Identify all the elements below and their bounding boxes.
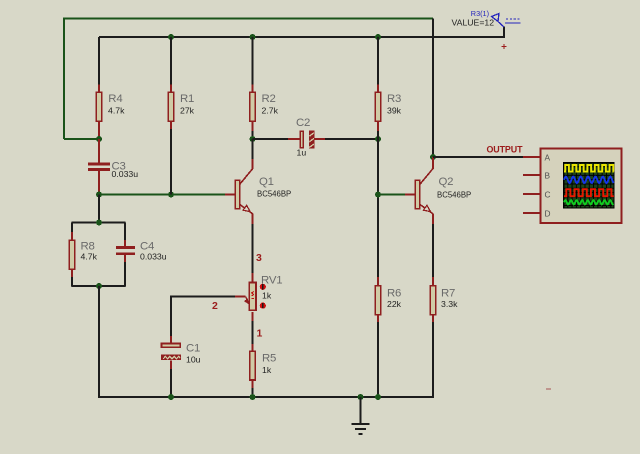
capacitor C4 xyxy=(116,246,135,255)
wire node to C2 xyxy=(253,138,289,140)
svg-text:BC546BP: BC546BP xyxy=(437,191,471,200)
svg-text:R4: R4 xyxy=(108,93,122,105)
label R5 xyxy=(262,353,276,365)
pin scope B xyxy=(523,174,541,176)
wire R8/C4 bottom bar xyxy=(72,285,126,287)
pin scope D xyxy=(523,212,541,214)
svg-text:B: B xyxy=(545,170,551,180)
label R7 xyxy=(441,288,455,300)
wire feedback top horizontal xyxy=(63,18,433,20)
label C1 xyxy=(186,343,200,355)
pin R5 top xyxy=(252,344,254,352)
value 10u xyxy=(186,355,201,365)
net label OUTPUT xyxy=(487,145,524,155)
value 1k xyxy=(262,291,272,301)
pin C2 left xyxy=(288,138,300,140)
stray mark xyxy=(546,388,551,390)
pin R7 bottom xyxy=(432,315,434,322)
node C3 bottom junction xyxy=(96,192,102,198)
label C4 xyxy=(140,241,154,253)
wire wiper vertical to C1 xyxy=(170,296,172,336)
pin R5 bottom xyxy=(252,380,254,388)
oscilloscope body xyxy=(541,148,622,223)
wire C4 branch lower xyxy=(124,262,126,287)
svg-text:R1: R1 xyxy=(180,93,194,105)
node R1 bottom xyxy=(168,192,174,198)
value 27k xyxy=(180,106,195,116)
svg-text:VALUE=12: VALUE=12 xyxy=(452,18,495,28)
label Q2 xyxy=(439,176,454,188)
resistor R2 xyxy=(250,92,256,121)
pin R3 top xyxy=(377,85,379,93)
svg-text:BC546BP: BC546BP xyxy=(257,190,291,199)
wire R5 to rail xyxy=(252,388,254,397)
wire R1 to base net xyxy=(170,129,172,195)
wire RV1 to R5 xyxy=(252,321,254,344)
capacitor C3 xyxy=(88,163,110,171)
wire R8 branch upper xyxy=(71,223,73,233)
pin C4 top xyxy=(124,240,126,247)
wire feedback left vertical xyxy=(63,18,65,139)
pin scope C xyxy=(523,193,541,195)
svg-text:4.7k: 4.7k xyxy=(108,106,125,116)
origin marker + xyxy=(502,44,507,49)
capacitor C1 xyxy=(162,343,181,359)
label R6 xyxy=(387,288,401,300)
node rail/R2 xyxy=(250,34,256,40)
label R2 xyxy=(262,93,276,105)
node R4/C3 junction xyxy=(96,136,102,142)
pin R6 bottom xyxy=(377,315,379,322)
svg-text:1k: 1k xyxy=(262,365,272,375)
pin R8 top xyxy=(71,232,73,240)
wire wiper horizontal xyxy=(171,296,235,298)
wire left column to ground rail xyxy=(98,286,100,398)
node output junction xyxy=(430,154,436,160)
wire R6 to rail xyxy=(377,322,379,397)
svg-text:OUTPUT: OUTPUT xyxy=(487,145,524,155)
pin RV1 wiper with arrow xyxy=(235,297,249,305)
ground xyxy=(352,397,370,434)
svg-text:1u: 1u xyxy=(297,147,307,157)
svg-text:4.7k: 4.7k xyxy=(81,251,98,261)
pin Q1 collector xyxy=(252,159,254,169)
value 0.033u xyxy=(140,251,167,261)
pin C4 bottom xyxy=(124,255,126,262)
pin R4 top xyxy=(98,85,100,93)
pin label C xyxy=(545,189,551,199)
trace channel B blue xyxy=(564,177,614,184)
pin R4 bottom xyxy=(98,121,100,139)
svg-text:R5: R5 xyxy=(262,353,276,365)
pin RV1 bottom xyxy=(252,312,254,321)
node rail/R3 xyxy=(375,34,381,40)
wire ground rail xyxy=(99,396,434,398)
svg-text:C: C xyxy=(545,189,551,199)
pin R7 top xyxy=(432,277,434,286)
resistor R6 xyxy=(375,286,381,315)
value 39k xyxy=(387,106,402,116)
svg-text:39k: 39k xyxy=(387,106,402,116)
node R8/C4 top xyxy=(96,220,102,226)
value BC546BP xyxy=(437,191,471,200)
transistor Q1 xyxy=(235,169,253,214)
pin C1 bottom xyxy=(170,360,172,369)
wire rail to R3 xyxy=(377,37,379,85)
pin C3 bottom xyxy=(98,171,100,195)
scope screen xyxy=(563,162,615,209)
power terminal R3(1) VALUE=12 xyxy=(492,14,522,28)
pin number 2 xyxy=(212,300,218,312)
pin Q1 base xyxy=(225,194,235,196)
RV1 hidden-pin dot lower xyxy=(260,303,266,309)
wire rail to R2 xyxy=(252,37,254,85)
wire Q2 emitter to R7 xyxy=(432,224,434,277)
pin RV1 top xyxy=(252,273,254,282)
wire feedback right vertical xyxy=(432,19,434,158)
label C3 xyxy=(112,160,126,172)
svg-text:3.3k: 3.3k xyxy=(441,299,458,309)
capacitor C2 xyxy=(300,131,314,148)
pin Q2 base xyxy=(405,194,415,196)
value 22k xyxy=(387,299,402,309)
pin R3 bottom xyxy=(377,121,379,131)
wire C4 branch upper xyxy=(124,223,126,241)
pin number 3 xyxy=(256,252,262,264)
label R4 xyxy=(108,93,122,105)
wire power rail xyxy=(99,36,504,38)
svg-text:0.033u: 0.033u xyxy=(112,169,139,179)
label Q1 xyxy=(259,176,274,188)
pin C2 right xyxy=(314,138,325,140)
resistor R5 xyxy=(250,351,256,380)
resistor R7 xyxy=(430,286,436,315)
wire Q1 emitter to RV1 xyxy=(252,224,254,273)
value 4.7k xyxy=(108,106,125,116)
wire Q1 collector drop xyxy=(252,139,254,159)
wire rail to R4 xyxy=(98,37,100,85)
wire R3 node to R6 xyxy=(377,139,379,277)
pin scope A xyxy=(523,156,541,158)
svg-text:2.7k: 2.7k xyxy=(262,106,279,116)
wire feedback to R4/C3 node xyxy=(64,138,99,140)
value label VALUE=12 xyxy=(452,18,495,28)
svg-text:R2: R2 xyxy=(262,93,276,105)
svg-text:2: 2 xyxy=(212,300,218,312)
svg-text:C1: C1 xyxy=(186,343,200,355)
label R3 xyxy=(387,93,401,105)
node R2/C2/Q1 collector xyxy=(250,136,256,142)
pin R1 bottom xyxy=(170,121,172,129)
resistor R1 xyxy=(168,92,174,121)
value BC546BP xyxy=(257,190,291,199)
node R5/rail xyxy=(250,394,256,400)
svg-text:Q2: Q2 xyxy=(439,176,454,188)
pin number 1 xyxy=(257,328,263,340)
svg-text:22k: 22k xyxy=(387,299,402,309)
wire C2 to R3 node xyxy=(325,138,378,140)
pin Q1 emitter xyxy=(252,214,254,225)
value 4.7k xyxy=(81,251,98,261)
wire C1 to rail xyxy=(170,369,172,397)
trace channel D green xyxy=(564,200,614,204)
wire node to R8/C4 top xyxy=(98,195,100,223)
svg-text:A: A xyxy=(545,152,551,162)
wire R8/C4 top bar xyxy=(72,222,126,224)
svg-text:C2: C2 xyxy=(296,117,310,129)
net label R3(1) xyxy=(471,9,489,18)
node Q2 base tap xyxy=(375,192,381,198)
wire output to scope xyxy=(433,156,523,158)
svg-text:R7: R7 xyxy=(441,288,455,300)
pin R6 top xyxy=(377,277,379,286)
value 3.3k xyxy=(441,299,458,309)
svg-text:D: D xyxy=(545,208,551,218)
pin Q2 collector xyxy=(432,157,434,169)
value 1k xyxy=(262,365,272,375)
svg-text:R3: R3 xyxy=(387,93,401,105)
resistor R8 xyxy=(69,240,75,269)
svg-text:Q1: Q1 xyxy=(259,176,274,188)
wire power terminal drop xyxy=(503,27,505,38)
label RV1 xyxy=(261,274,282,286)
pin C1 top xyxy=(170,336,172,344)
pin label D xyxy=(545,208,551,218)
transistor Q2 xyxy=(415,169,433,214)
resistor R4 xyxy=(96,92,102,121)
node R6/rail xyxy=(375,394,381,400)
potentiometer RV1 xyxy=(249,283,256,311)
label R8 xyxy=(81,241,95,253)
node C1/rail xyxy=(168,394,174,400)
pin R8 bottom xyxy=(71,269,73,277)
svg-text:27k: 27k xyxy=(180,106,195,116)
wire R8 branch lower xyxy=(71,277,73,287)
wire R3 to node xyxy=(377,131,379,139)
value 0.033u xyxy=(112,169,139,179)
node rail/R1 xyxy=(168,34,174,40)
wire rail to R1 xyxy=(170,37,172,85)
wire R7 to rail corner xyxy=(432,322,434,398)
label R1 xyxy=(180,93,194,105)
trace channel A yellow xyxy=(564,165,614,172)
svg-text:10u: 10u xyxy=(186,355,201,365)
pin R2 top xyxy=(252,85,254,93)
pin R1 top xyxy=(170,85,172,93)
RV1 hidden-pin dot upper xyxy=(260,284,266,290)
value 2.7k xyxy=(262,106,279,116)
pin label A xyxy=(545,152,551,162)
svg-text:0.033u: 0.033u xyxy=(140,251,167,261)
svg-text:1: 1 xyxy=(257,328,263,340)
svg-text:3: 3 xyxy=(256,252,262,264)
svg-text:1k: 1k xyxy=(262,291,272,301)
label C2 xyxy=(296,117,310,129)
pin C3 top xyxy=(98,139,100,163)
svg-text:R6: R6 xyxy=(387,288,401,300)
pin Q2 emitter xyxy=(432,214,434,225)
pin R2 bottom xyxy=(252,121,254,131)
node C2/R3 xyxy=(375,136,381,142)
node R8/C4 bottom xyxy=(96,283,102,289)
trace channel C red xyxy=(564,189,614,196)
node ground tap xyxy=(358,394,364,400)
wire Q2 base net xyxy=(378,194,405,196)
wire R2 to C2 node xyxy=(252,131,254,139)
wire base net xyxy=(99,194,225,196)
value 1u xyxy=(297,147,307,157)
resistor R3 xyxy=(375,92,381,121)
pin label B xyxy=(545,170,551,180)
